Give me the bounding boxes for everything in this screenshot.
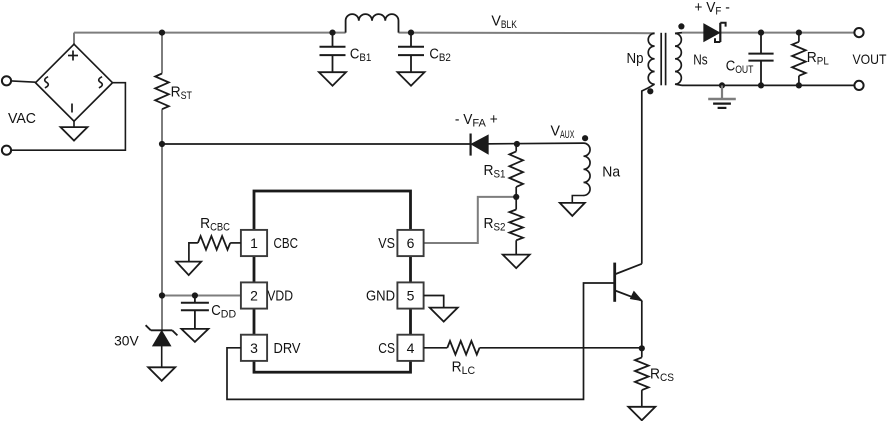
ground CB2 — [398, 72, 425, 86]
svg-text:RLC: RLC — [452, 359, 476, 378]
resistor RLC — [447, 341, 479, 355]
transistor Q1 emitter — [615, 290, 642, 300]
zener 30V — [153, 331, 170, 345]
svg-text:Ns: Ns — [693, 51, 707, 68]
node secondary ground junction — [719, 82, 725, 88]
transistor Q1 base bar — [613, 263, 616, 302]
svg-text:2: 2 — [250, 288, 258, 304]
wire RLC to sense node — [480, 347, 642, 349]
svg-text:Na: Na — [602, 164, 620, 181]
bridge plus mark — [68, 55, 78, 57]
pin 5 square — [397, 282, 423, 308]
node Np phase dot — [647, 88, 653, 94]
terminal VAC line — [2, 76, 11, 85]
transformer T1 secondary Ns — [675, 33, 681, 84]
capacitor CB1 — [332, 33, 334, 47]
svg-text:RS1: RS1 — [484, 162, 506, 181]
diode DF schottky bar — [719, 23, 721, 42]
wire output top rail — [682, 32, 859, 34]
ground RCS — [628, 407, 655, 421]
capacitor CB2 — [410, 33, 412, 47]
wire earth stub — [721, 85, 723, 99]
terminal VAC neutral — [2, 146, 11, 155]
node CB1 junction — [329, 29, 335, 35]
resistor RCS — [641, 348, 643, 357]
wire output bottom rail — [682, 84, 859, 86]
bridge ac mark right — [99, 77, 103, 88]
diode DF — [704, 24, 719, 41]
wire emitter to sense — [641, 301, 643, 349]
svg-text:- VFA +: - VFA + — [455, 111, 498, 130]
node CDD junction — [192, 292, 198, 298]
transformer core — [660, 33, 662, 86]
node Ns phase dot — [678, 23, 684, 29]
capacitor COUT — [760, 33, 762, 54]
svg-text:CB2: CB2 — [429, 46, 451, 64]
wire CS to RLC — [424, 347, 448, 349]
ground RS2 — [503, 255, 530, 269]
pin 1 square — [241, 230, 267, 256]
node VDD rail junction — [159, 292, 165, 298]
svg-text:RCS: RCS — [650, 366, 674, 385]
node VAUX junction — [514, 141, 520, 147]
transformer T1 primary Np — [648, 33, 654, 84]
wire top bulk rail left — [74, 32, 346, 34]
wire VAC bottom — [11, 83, 125, 151]
node RST-feedback junction — [159, 141, 165, 147]
svg-text:RPL: RPL — [807, 49, 829, 68]
wire zener to ground — [161, 346, 163, 368]
ground GND pin — [430, 308, 458, 322]
svg-text:CS: CS — [378, 340, 395, 357]
zener 30V bar — [151, 329, 172, 331]
pin 4 square — [397, 335, 423, 361]
node COUT top junction — [758, 29, 764, 35]
svg-text:5: 5 — [407, 288, 415, 304]
svg-text:RS2: RS2 — [484, 215, 506, 234]
wire bridge output riser — [73, 33, 75, 45]
wire feedback rail right — [472, 142, 584, 145]
resistor RCBC — [198, 236, 230, 250]
ground zener — [148, 367, 175, 381]
node CB2 junction — [408, 29, 414, 35]
svg-text:VS: VS — [378, 235, 395, 252]
wire Na to ground — [572, 196, 583, 203]
svg-text:RCBC: RCBC — [200, 215, 230, 234]
bridge minus mark — [71, 104, 73, 113]
wire VAC top — [11, 81, 35, 82]
svg-text:+ VF -: + VF - — [694, 0, 730, 17]
ground RCBC — [176, 262, 201, 276]
svg-text:VBLK: VBLK — [491, 12, 517, 31]
svg-text:VAC: VAC — [8, 110, 36, 127]
ground CDD — [181, 329, 208, 342]
resistor RS1 — [515, 144, 517, 151]
transistor Q1 collector — [615, 264, 642, 275]
wire startup rail vertical — [161, 33, 163, 74]
svg-text:3: 3 — [250, 340, 258, 356]
svg-text:VAUX: VAUX — [551, 123, 575, 142]
bridge ac mark left — [45, 77, 49, 88]
svg-text:6: 6 — [407, 235, 415, 251]
node current sense junction — [639, 345, 645, 351]
svg-text:CB1: CB1 — [350, 46, 372, 64]
svg-text:DRV: DRV — [274, 340, 301, 357]
wire DRV route — [227, 283, 614, 399]
ground Na — [560, 203, 585, 216]
wire RST to VDD vertical — [161, 109, 163, 330]
ground CB1 — [319, 72, 346, 86]
ground earth secondary — [708, 98, 736, 100]
diode DFA — [472, 136, 488, 154]
svg-text:CDD: CDD — [211, 302, 236, 321]
svg-text:GND: GND — [366, 288, 395, 305]
wire feedback rail — [162, 143, 470, 145]
svg-text:Np: Np — [627, 50, 644, 67]
svg-text:RST: RST — [171, 84, 193, 103]
wire top bulk rail right (VBLK) — [399, 32, 655, 35]
diode DFA cathode bar — [470, 134, 472, 156]
pin 2 square — [241, 282, 267, 308]
pin 6 square — [397, 230, 423, 256]
resistor RS2 — [515, 197, 517, 210]
inductor L1 — [346, 14, 399, 33]
svg-text:CBC: CBC — [274, 235, 299, 252]
svg-text:VDD: VDD — [267, 288, 293, 305]
node COUT bottom junction — [758, 82, 764, 88]
wire VDD horizontal — [162, 295, 241, 297]
bridge rectifier D1 diamond — [36, 44, 113, 121]
op-amp U1 body — [254, 191, 411, 372]
wire Np bottom to switch — [642, 84, 655, 264]
svg-text:30V: 30V — [114, 333, 139, 349]
ground bridge — [61, 127, 88, 141]
terminal VOUT minus — [854, 81, 863, 90]
pin 3 square — [241, 335, 267, 361]
terminal VOUT plus — [854, 28, 863, 37]
wire GND pin route — [424, 296, 444, 308]
node RPL bottom junction — [796, 82, 802, 88]
wire Ns bottom exit — [675, 84, 682, 85]
node Na phase dot — [582, 135, 588, 141]
svg-text:4: 4 — [407, 340, 415, 356]
node RS1-RS2 junction — [513, 194, 519, 200]
wire bridge to ground — [73, 121, 75, 127]
wire VS route — [424, 197, 517, 243]
resistor RST — [155, 74, 169, 110]
node bulk-RST junction — [159, 29, 165, 35]
svg-text:VOUT: VOUT — [853, 51, 887, 67]
wire Ns top exit — [675, 32, 682, 35]
node RPL top junction — [796, 29, 802, 35]
capacitor CDD — [194, 296, 196, 303]
svg-text:1: 1 — [250, 235, 258, 251]
resistor RPL — [798, 33, 800, 42]
winding Na — [584, 143, 591, 195]
